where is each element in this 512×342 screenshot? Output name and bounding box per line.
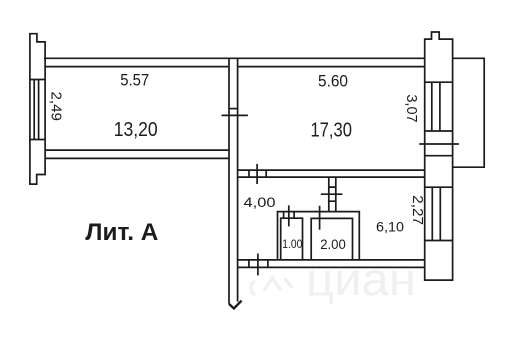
window W1 left (2,49) sill lines <box>30 80 45 140</box>
wall middle vertical line B <box>237 58 239 301</box>
closet outer box <box>278 212 360 260</box>
svg-text:2.00: 2.00 <box>320 236 346 252</box>
svg-text:1.00: 1.00 <box>282 237 302 251</box>
wall left exterior with steps <box>30 34 45 184</box>
door D2 jambs <box>249 170 266 177</box>
door D1 long tick <box>222 114 248 116</box>
right block inner line <box>425 155 453 157</box>
vent duct rungs <box>329 187 336 201</box>
arrow at middle wall bottom <box>229 301 242 309</box>
wall room 13,20 bottom line 1 <box>45 149 229 151</box>
window W2 (3,07) sills <box>425 82 453 131</box>
svg-text:17,30: 17,30 <box>310 118 352 141</box>
wall lower-area top line 2 <box>238 176 425 178</box>
wall middle vertical line A <box>228 58 230 304</box>
vent duct verticals <box>329 177 336 212</box>
window W3 glazing lines <box>432 187 440 240</box>
svg-text:2,27: 2,27 <box>409 195 425 225</box>
wall lower-area top line 1 <box>238 169 425 171</box>
window W1 glazing lines <box>34 80 38 140</box>
svg-text:3,07: 3,07 <box>403 94 419 122</box>
watermark logo <box>251 278 293 295</box>
svg-text:4,00: 4,00 <box>244 194 276 210</box>
door D2 long tick <box>256 164 258 184</box>
door D3 long tick <box>257 254 259 276</box>
wall top exterior line 1 <box>44 57 425 59</box>
svg-text:циан: циан <box>306 253 416 305</box>
window W2 glazing lines <box>432 82 440 131</box>
wall right exterior block outline with notch <box>425 32 453 280</box>
window W3 (2,27) sills <box>425 187 453 240</box>
balcony outline <box>453 58 485 167</box>
balcony door long tick <box>419 143 459 145</box>
svg-text:6,10: 6,10 <box>376 219 404 235</box>
svg-text:2,49: 2,49 <box>48 91 64 121</box>
closet 1.00 box <box>281 218 303 260</box>
door D5 long tick (2.00) <box>319 206 321 230</box>
wall room 13,20 bottom line 2 <box>45 157 229 159</box>
wall bottom line 2 <box>238 266 425 268</box>
door D3 jambs <box>249 260 268 268</box>
svg-text:13,20: 13,20 <box>114 118 158 141</box>
door D4 jambs (1.00) <box>284 212 295 218</box>
door D4 long tick (1.00) <box>288 205 290 226</box>
vent duct long tick <box>321 193 343 195</box>
door D1 jamb tick <box>229 108 238 110</box>
svg-text:5.57: 5.57 <box>120 71 149 90</box>
svg-text:Лит. А: Лит. А <box>85 219 158 246</box>
wall bottom line 1 <box>238 259 425 261</box>
svg-text:5.60: 5.60 <box>318 72 348 91</box>
closet 2.00 box <box>311 218 352 260</box>
wall top interior line 2 <box>45 66 425 68</box>
